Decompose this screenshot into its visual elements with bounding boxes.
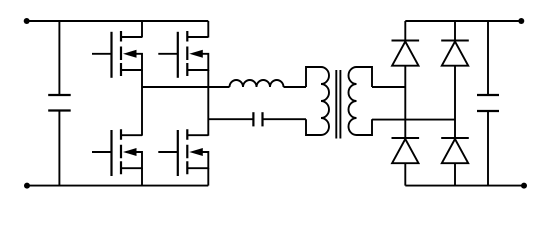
C2 left plate	[252, 112, 254, 126]
T1 core line left	[335, 70, 337, 139]
C3 top plate	[477, 94, 499, 96]
Q4 body arrow	[189, 148, 203, 156]
Q4 gate bar	[177, 130, 179, 176]
C3 top stub	[487, 21, 489, 95]
wire secondary bottom to rectifier leg2	[372, 119, 455, 121]
C2 right plate	[261, 112, 263, 126]
D4 cathode bar	[441, 137, 469, 139]
D1 triangle	[392, 42, 418, 66]
T1 secondary turns	[349, 67, 357, 135]
wire right leg mid	[207, 70, 209, 136]
T1 core line right	[339, 70, 341, 139]
Q1 drain connect	[121, 36, 142, 38]
C1 top stub	[58, 21, 60, 95]
wire top rail right	[405, 20, 521, 22]
wire D4 anode lead	[454, 163, 456, 185]
D2 cathode bar	[441, 40, 469, 42]
Q4 channel dashes	[186, 129, 188, 174]
wire Q4 source to bottom rail	[207, 168, 209, 185]
T1 primary top lead	[306, 67, 321, 87]
wire Q2 source to bottom rail	[141, 168, 143, 185]
wire secondary top to rectifier leg1	[372, 86, 405, 88]
C3 bottom stub	[487, 111, 489, 186]
output terminal dot top	[518, 18, 524, 24]
input terminal dot top	[24, 18, 30, 24]
capacitor C1 (input)	[48, 21, 70, 186]
diode D2	[441, 41, 469, 66]
wire bottom rail left	[27, 185, 208, 187]
diode D1	[392, 41, 420, 66]
Q3 source connect	[187, 54, 208, 70]
transformer T1 primary winding	[306, 67, 329, 135]
Q1 body arrow	[123, 50, 137, 58]
T1 secondary bottom lead	[357, 119, 373, 135]
mosfet Q4	[158, 129, 208, 176]
Q1 channel dashes	[120, 31, 122, 76]
transformer T1 core	[336, 70, 340, 139]
wire L1 to primary	[284, 86, 307, 88]
D3 triangle	[392, 139, 418, 163]
Q2 gate bar	[110, 130, 112, 176]
D2 triangle	[442, 42, 468, 66]
mosfet Q3	[158, 31, 208, 78]
D3 cathode bar	[392, 137, 420, 139]
Q2 gate stub	[92, 151, 112, 153]
T1 primary bottom lead	[306, 119, 321, 135]
wire D1 cathode lead	[404, 21, 406, 41]
Q3 drain connect	[187, 36, 208, 38]
Q2 body arrow	[123, 148, 137, 156]
diode D3	[392, 138, 420, 163]
wire left leg mid	[141, 70, 143, 136]
T1 primary turns	[321, 67, 329, 135]
Q3 gate bar	[177, 32, 179, 78]
Q4 gate stub	[158, 151, 178, 153]
C1 top plate	[48, 94, 70, 96]
inductor L1	[230, 80, 284, 87]
Q4 source connect	[187, 152, 208, 168]
D1 cathode bar	[392, 40, 420, 42]
wire D2 cathode lead	[454, 21, 456, 41]
transformer T1 secondary winding	[349, 67, 373, 135]
Q3 body arrow	[189, 50, 203, 58]
Q3 channel dashes	[186, 31, 188, 76]
wire bottom rail right	[405, 185, 524, 187]
wire top rail left	[27, 20, 209, 22]
Q1 gate bar	[110, 32, 112, 78]
T1 secondary top lead	[357, 67, 373, 87]
Q2 channel dashes	[120, 129, 122, 174]
input terminal dot bottom	[24, 183, 30, 189]
Q3 gate stub	[158, 53, 178, 55]
wire C2 to primary	[263, 118, 307, 120]
wire D3 anode lead	[404, 163, 406, 185]
wire rectifier leg2 mid	[454, 66, 456, 138]
output terminal dot bottom	[521, 183, 527, 189]
diode D4	[441, 138, 469, 163]
D4 triangle	[442, 139, 468, 163]
wire Q3 drain to top rail	[207, 21, 209, 38]
Q4 drain connect	[187, 134, 208, 136]
mosfet Q1	[92, 31, 142, 78]
Q1 gate stub	[92, 53, 112, 55]
wire rectifier leg1 mid	[404, 66, 406, 138]
wire phase A	[142, 86, 230, 88]
mosfet Q2	[92, 129, 142, 176]
wire phase B	[208, 118, 253, 120]
capacitor C2 (series)	[253, 112, 262, 126]
C3 bottom plate	[477, 110, 499, 112]
Q2 source connect	[121, 152, 142, 168]
capacitor C3 (output)	[477, 21, 499, 186]
wire Q1 drain to top rail	[141, 21, 143, 38]
C1 bottom stub	[58, 111, 60, 186]
Q1 source connect	[121, 54, 142, 70]
C1 bottom plate	[48, 109, 70, 111]
Q2 drain connect	[121, 134, 142, 136]
